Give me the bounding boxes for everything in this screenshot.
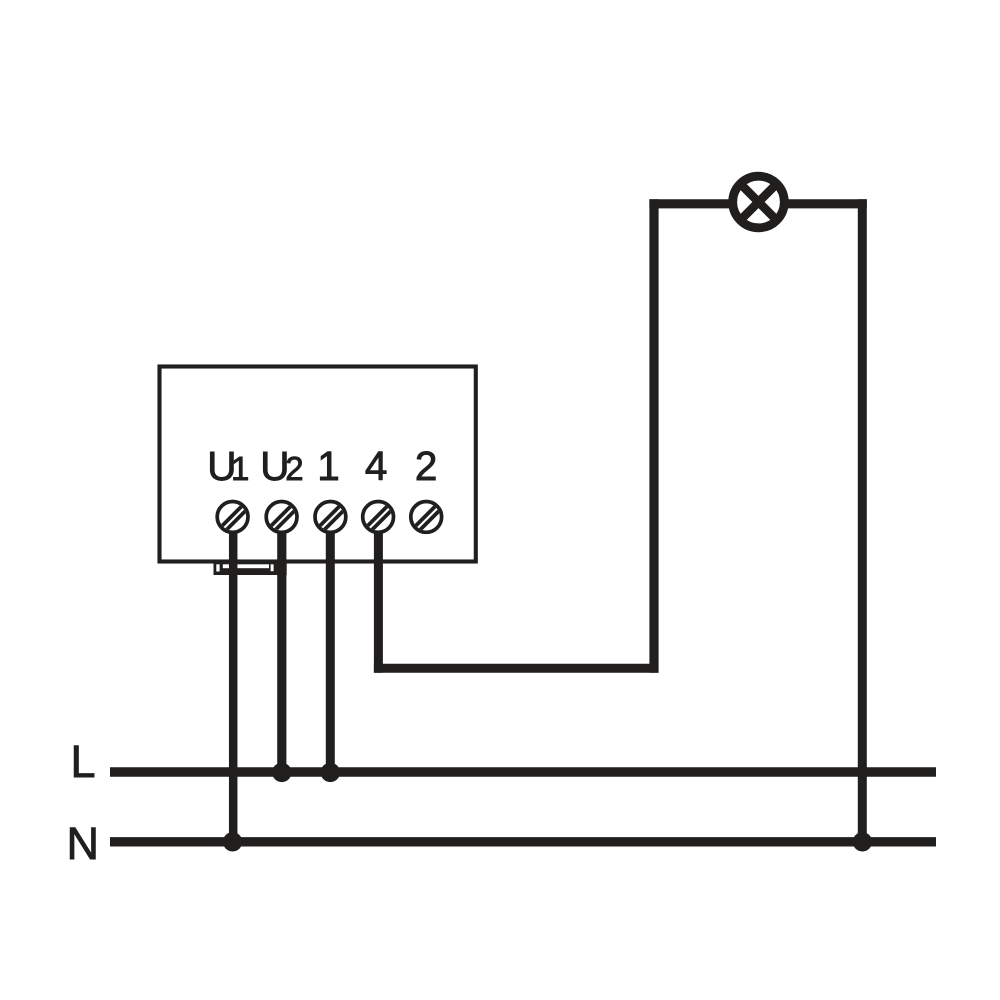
svg-text:2: 2 xyxy=(285,450,303,487)
wire U2 to L xyxy=(277,529,286,772)
wire terminal 1 to L xyxy=(326,529,335,772)
lamp xyxy=(733,176,785,228)
wire terminal 4 down xyxy=(374,529,383,673)
svg-text:2: 2 xyxy=(415,443,438,489)
junction dot U2-L xyxy=(272,763,291,782)
wire top to lamp xyxy=(649,199,866,208)
terminal U2 xyxy=(262,498,303,539)
terminal U1 xyxy=(213,498,254,539)
jumper link U1-U2 xyxy=(214,563,287,575)
svg-text:4: 4 xyxy=(365,443,388,489)
terminal 2 xyxy=(407,498,448,539)
device box xyxy=(160,367,476,562)
wire lamp to N xyxy=(858,199,867,842)
svg-text:N: N xyxy=(67,818,100,869)
svg-text:1: 1 xyxy=(317,443,340,489)
terminal 1 xyxy=(311,498,352,539)
terminal 4 xyxy=(359,498,400,539)
L line xyxy=(110,767,936,776)
N line xyxy=(110,837,936,846)
junction dot U1-N xyxy=(223,832,242,851)
wire U1 to N xyxy=(229,529,238,842)
wire 4-segment horizontal xyxy=(374,664,659,673)
wire up to lamp xyxy=(649,199,658,672)
svg-text:1: 1 xyxy=(231,450,249,487)
junction dot lamp-N xyxy=(853,832,872,851)
svg-text:L: L xyxy=(71,736,96,787)
junction dot 1-L xyxy=(321,763,340,782)
